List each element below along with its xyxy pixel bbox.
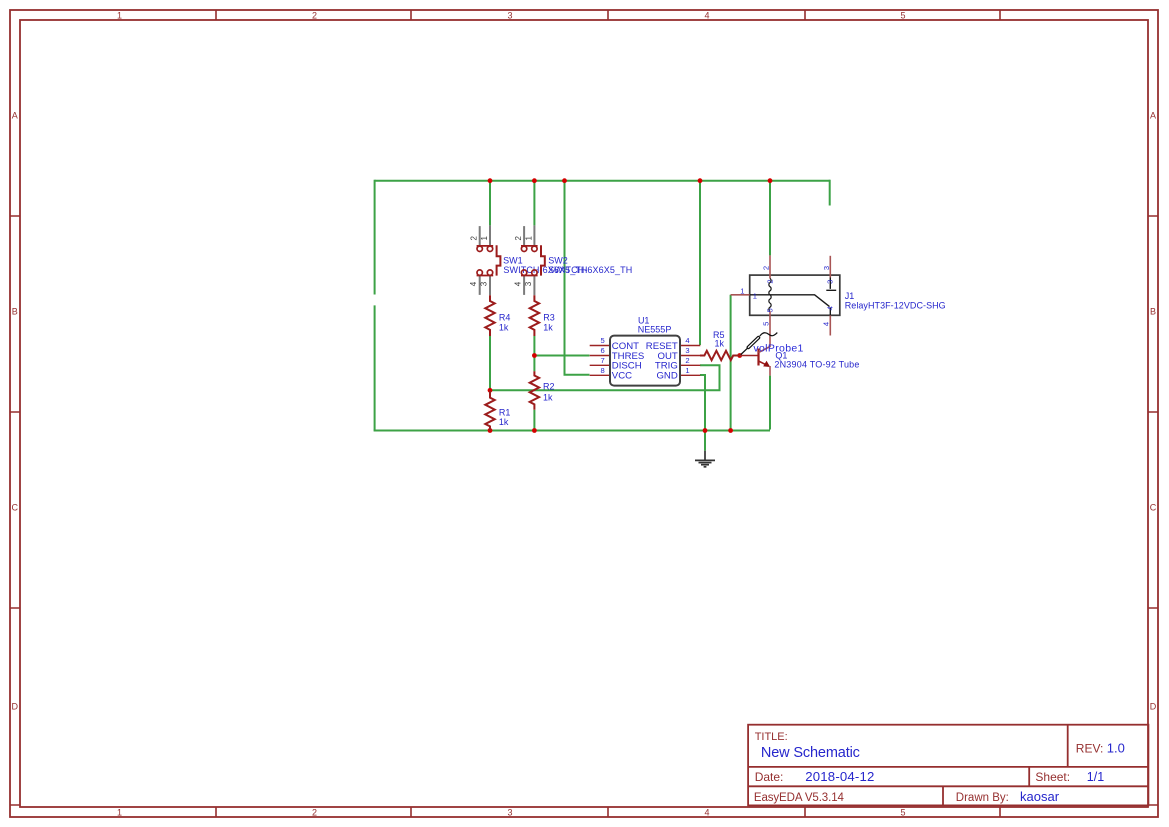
svg-text:1: 1	[117, 807, 122, 817]
svg-text:1/1: 1/1	[1087, 770, 1104, 784]
resistor R3	[530, 295, 555, 336]
Q1 base wire	[740, 355, 759, 357]
switch SW1	[469, 225, 587, 295]
junction bottom rail / relay pin1 wire	[728, 428, 733, 433]
title block row line 1	[748, 766, 1148, 768]
svg-text:EasyEDA V5.3.14: EasyEDA V5.3.14	[754, 792, 845, 804]
resistor R2	[530, 371, 555, 410]
op-amp U1 NE555P	[590, 316, 701, 386]
svg-text:TITLE:: TITLE:	[755, 731, 788, 743]
SW1 pin numbers	[469, 236, 489, 287]
wire TRIG return	[490, 365, 720, 390]
U1 pin stubs left	[590, 346, 610, 376]
svg-text:5: 5	[600, 336, 604, 345]
J1 pin 1 stub	[731, 294, 750, 296]
U1 body	[610, 336, 680, 386]
U1 pin names	[612, 341, 678, 382]
probe volProbe1	[741, 333, 804, 355]
svg-text:2: 2	[762, 266, 771, 270]
svg-text:1: 1	[685, 366, 689, 375]
row labels right	[1150, 111, 1157, 712]
wire SW1 column drop	[489, 181, 491, 226]
Q1 base bar	[757, 349, 759, 366]
ground	[695, 451, 715, 467]
svg-text:1: 1	[524, 236, 533, 241]
U1 pin stubs right	[680, 346, 700, 376]
svg-text:D: D	[1150, 702, 1157, 712]
svg-text:5: 5	[766, 308, 775, 312]
svg-text:Drawn By:: Drawn By:	[956, 792, 1009, 804]
Q1 emitter	[759, 361, 769, 366]
right row ticks	[1148, 216, 1158, 805]
wire emitter to bottom rail	[769, 376, 771, 430]
column labels bottom	[117, 807, 906, 817]
svg-text:4: 4	[704, 807, 709, 817]
svg-text:2: 2	[470, 236, 479, 241]
title block Sheet divider	[1028, 767, 1030, 786]
Q1 emitter arrow	[763, 361, 770, 367]
Q1 emitter lead	[769, 366, 771, 376]
svg-text:3: 3	[826, 280, 835, 284]
transistor Q1	[740, 315, 860, 375]
svg-text:A: A	[12, 111, 18, 121]
resistor R5	[700, 330, 740, 360]
relay J1	[731, 255, 946, 335]
junction R4-R1 / TRIG return	[488, 388, 493, 393]
junction bottom rail / ground	[703, 428, 708, 433]
svg-text:4: 4	[821, 322, 830, 326]
junction top rail / relay pin2	[768, 178, 773, 183]
junction top rail / SW1	[488, 178, 493, 183]
svg-text:3: 3	[507, 10, 512, 20]
J1 pin 5 stub	[769, 311, 771, 315]
svg-text:3: 3	[480, 281, 489, 286]
J1 switch arm	[750, 295, 830, 307]
junction R5 output node	[737, 353, 742, 358]
svg-text:4: 4	[513, 281, 522, 286]
wire left vertical lower	[374, 305, 376, 430]
svg-text:3: 3	[507, 807, 512, 817]
svg-text:Date:: Date:	[755, 770, 784, 784]
svg-text:Sheet:: Sheet:	[1035, 770, 1070, 784]
J1 pin 4 inner	[829, 308, 831, 316]
wire R4 to R1 segment	[489, 336, 491, 390]
junction bottom rail / R2	[532, 428, 537, 433]
resistor R1	[485, 391, 510, 431]
wire top-right stub to relay pin3	[829, 180, 831, 206]
title block outline	[748, 725, 1148, 806]
svg-text:2: 2	[514, 236, 523, 241]
SW2 contacts and actuator	[521, 245, 545, 275]
top column ticks	[216, 10, 1000, 20]
svg-text:6: 6	[600, 346, 604, 355]
svg-text:R2: R2	[543, 381, 555, 391]
svg-text:D: D	[11, 702, 18, 712]
svg-text:8: 8	[600, 366, 604, 375]
U1 pin numbers	[600, 336, 689, 375]
svg-text:R1: R1	[499, 407, 511, 417]
wire VCC column drop	[565, 181, 590, 375]
column labels top	[117, 10, 906, 20]
row labels left	[11, 111, 18, 712]
svg-text:2: 2	[312, 10, 317, 20]
svg-text:5: 5	[761, 322, 770, 326]
wire R2 to bottom rail	[533, 410, 535, 431]
svg-text:C: C	[1150, 503, 1157, 513]
left row ticks	[10, 216, 20, 805]
svg-text:5: 5	[900, 807, 905, 817]
wire bottom rail	[374, 430, 770, 432]
probe lead squiggle	[760, 333, 778, 336]
title block row line 2	[748, 785, 1148, 787]
junction top rail / SW2	[532, 178, 537, 183]
svg-text:5: 5	[900, 10, 905, 20]
junction THRES	[532, 353, 537, 358]
svg-text:R3: R3	[543, 313, 555, 323]
J1 body	[750, 275, 840, 315]
svg-text:2: 2	[312, 807, 317, 817]
svg-text:3: 3	[822, 266, 831, 270]
svg-text:3: 3	[524, 281, 533, 286]
wire top rail	[375, 180, 830, 182]
svg-text:4: 4	[826, 306, 835, 310]
J1 pin 4 stub	[829, 315, 831, 335]
svg-text:1: 1	[740, 287, 744, 296]
svg-text:kaosar: kaosar	[1020, 789, 1060, 804]
svg-text:1: 1	[480, 236, 489, 241]
svg-text:1k: 1k	[499, 417, 509, 427]
wire SW2 column drop	[533, 181, 535, 226]
svg-text:R4: R4	[499, 313, 511, 323]
svg-text:C: C	[11, 503, 18, 513]
junction top rail / VCC column	[562, 178, 567, 183]
svg-text:New Schematic: New Schematic	[761, 745, 860, 761]
svg-text:1k: 1k	[543, 323, 553, 333]
wire relay pin1 drop	[730, 295, 732, 431]
svg-text:SWITCH-6X6X5_TH: SWITCH-6X6X5_TH	[548, 265, 632, 275]
svg-text:RelayHT3F-12VDC-SHG: RelayHT3F-12VDC-SHG	[845, 300, 946, 310]
svg-text:B: B	[12, 307, 18, 317]
wire left vertical upper	[374, 180, 376, 295]
probe body	[747, 336, 761, 349]
SW2 pin numbers	[513, 236, 533, 287]
svg-text:GND: GND	[656, 371, 677, 382]
junction top rail / RESET column	[698, 178, 703, 183]
J1 pin 3 inner contact	[826, 278, 836, 291]
SW1 pin lines	[480, 225, 490, 295]
svg-text:B: B	[1150, 307, 1156, 317]
svg-text:1k: 1k	[543, 392, 553, 402]
wire R3 to THRES junction	[533, 336, 535, 356]
J1 pin 2 stub	[769, 255, 771, 278]
resistor R4	[485, 295, 510, 336]
svg-text:7: 7	[600, 356, 604, 365]
svg-text:volProbe1: volProbe1	[753, 343, 803, 355]
svg-text:NE555P: NE555P	[638, 325, 672, 335]
probe needle	[741, 348, 748, 354]
svg-text:1: 1	[117, 10, 122, 20]
svg-text:1k: 1k	[499, 323, 509, 333]
J1 coil	[769, 279, 771, 312]
svg-text:3: 3	[685, 346, 689, 355]
svg-text:1k: 1k	[715, 338, 725, 348]
bottom column ticks	[216, 807, 1000, 817]
svg-text:4: 4	[704, 10, 709, 20]
svg-text:2: 2	[685, 356, 689, 365]
wire RESET column drop	[699, 181, 701, 345]
wire GND pin to ground column	[700, 375, 705, 431]
svg-text:4: 4	[685, 336, 689, 345]
Q1 collector	[759, 315, 771, 352]
svg-text:1: 1	[753, 292, 757, 301]
SW1 contacts and actuator	[477, 245, 501, 275]
SW2 pin lines	[524, 225, 534, 295]
svg-text:A: A	[1150, 111, 1156, 121]
wire ground stem green	[704, 431, 706, 451]
svg-text:1.0: 1.0	[1107, 741, 1125, 756]
junction bottom rail / R1	[488, 428, 493, 433]
switch SW2	[513, 225, 632, 295]
svg-text:2: 2	[766, 279, 775, 283]
svg-text:REV:: REV:	[1076, 742, 1104, 756]
wire THRES junction to R2	[533, 356, 535, 372]
svg-text:2N3904 TO-92 Tube: 2N3904 TO-92 Tube	[774, 360, 859, 370]
wire THRES horizontal	[534, 355, 589, 357]
svg-text:VCC: VCC	[612, 371, 632, 382]
svg-text:2018-04-12: 2018-04-12	[805, 769, 874, 784]
title block DrawnBy divider	[942, 786, 944, 805]
wire relay pin2 drop	[769, 181, 771, 256]
title block REV divider	[1067, 725, 1069, 767]
svg-text:4: 4	[469, 281, 478, 286]
J1 pin 3 stub	[829, 256, 831, 278]
J1 pin numbers	[740, 266, 834, 326]
